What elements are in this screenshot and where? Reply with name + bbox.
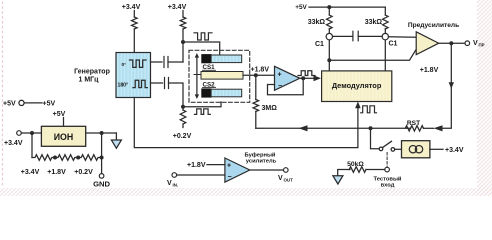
wire +1.8V to buffer + input bbox=[207, 164, 225, 166]
waveform glyph demod clock bbox=[361, 106, 377, 113]
svg-text:OUT: OUT bbox=[284, 178, 294, 183]
arrow down on feedback bbox=[449, 82, 454, 89]
wire cap down to CS2 node bbox=[169, 83, 184, 107]
svg-text:33kΩ: 33kΩ bbox=[308, 19, 326, 26]
svg-text:180°: 180° bbox=[118, 82, 129, 88]
svg-text:0°: 0° bbox=[122, 62, 127, 68]
svg-text:V: V bbox=[278, 175, 283, 182]
resistor bias to +0.2V bbox=[182, 107, 184, 110]
capacitor coupling 0deg bbox=[164, 57, 168, 68]
svg-text:RST: RST bbox=[407, 120, 420, 127]
demodulator block bbox=[322, 71, 392, 102]
wire test input to 50k bbox=[366, 169, 385, 171]
decorative border (bottom band) bbox=[0, 188, 492, 196]
svg-text:C1: C1 bbox=[389, 41, 398, 48]
wire demod top-right pin up to C1 right bbox=[384, 40, 386, 71]
terminal Vout bbox=[284, 168, 289, 173]
resistor divider R a bbox=[32, 155, 55, 161]
svg-text:+3.4V: +3.4V bbox=[4, 140, 23, 147]
resistor 50k bbox=[349, 167, 366, 173]
svg-text:V: V bbox=[167, 180, 172, 187]
wire Vin to buffer - input bbox=[177, 174, 225, 176]
feedback wire preamp to RST line bbox=[443, 43, 451, 128]
wire cap to node x183 bbox=[168, 61, 183, 63]
arrow left before RST bbox=[434, 125, 443, 131]
wire preamp output to Vpr bbox=[439, 42, 465, 44]
op-amp preamp U2 bbox=[416, 32, 439, 55]
middle plate left tick bbox=[194, 74, 201, 76]
wire generator 180deg output to cap bbox=[151, 82, 163, 84]
svg-text:3МΩ: 3МΩ bbox=[262, 105, 278, 112]
svg-text:+3.4V: +3.4V bbox=[21, 169, 40, 176]
svg-text:+3.4V: +3.4V bbox=[445, 147, 464, 154]
terminal GND bbox=[99, 174, 104, 179]
svg-text:ПР: ПР bbox=[479, 43, 485, 48]
svg-text:Буферный: Буферный bbox=[244, 152, 275, 159]
wire +5V terminal bbox=[24, 102, 42, 104]
wire node down to test switch bbox=[371, 128, 379, 149]
wire 3M to feedback line bbox=[255, 112, 257, 129]
resistor RST bbox=[424, 127, 434, 129]
svg-text:+5V: +5V bbox=[295, 4, 307, 11]
svg-text:вход: вход bbox=[381, 183, 395, 189]
node C1 right (open circle) bbox=[382, 33, 388, 39]
wire node down to 3M resistor bbox=[255, 75, 257, 99]
waveform glyph 180deg bbox=[133, 80, 147, 87]
wire lamp box to +3.4V bbox=[430, 148, 443, 150]
svg-text:Предусилитель: Предусилитель bbox=[408, 22, 459, 29]
resistor R pull-up 1 bbox=[132, 17, 138, 29]
wire middle plate to op-amp U1 input bbox=[243, 74, 275, 76]
wire C1 right to preamp bbox=[388, 36, 416, 38]
svg-text:GND: GND bbox=[93, 179, 110, 188]
resistor R pull-up 2 bbox=[180, 17, 186, 29]
svg-text:+1.8V: +1.8V bbox=[251, 67, 270, 74]
svg-text:+5V: +5V bbox=[43, 101, 56, 108]
wire cap to C1 right bbox=[358, 35, 382, 37]
+5V rail wire bbox=[309, 6, 385, 8]
svg-text:усилитель: усилитель bbox=[246, 159, 277, 165]
wire 50k to ground bbox=[338, 170, 350, 176]
capacitor coupling 180deg bbox=[165, 78, 169, 89]
wire demod top-left pin up to C1 left bbox=[328, 40, 330, 71]
svg-text:Демодулятор: Демодулятор bbox=[332, 81, 382, 90]
terminal test input bbox=[385, 167, 390, 172]
wire +5V to ION bbox=[63, 118, 65, 127]
lamp box (reference element) bbox=[402, 141, 430, 158]
common middle plate bbox=[201, 72, 243, 80]
wire U1 output to demodulator bbox=[300, 77, 314, 79]
wire ION right to ground symbol bbox=[86, 132, 117, 134]
sensor dashed box bbox=[189, 50, 250, 102]
wire node down to divider bbox=[31, 133, 33, 158]
svg-text:+1.8V: +1.8V bbox=[420, 67, 439, 74]
wire C1 left to cap bbox=[333, 35, 353, 37]
svg-text:+3.4V: +3.4V bbox=[122, 4, 141, 11]
arrow left mid feedback bbox=[299, 125, 308, 131]
node feedback / test switch bbox=[369, 126, 373, 130]
node +0.2V tap bbox=[76, 156, 80, 160]
svg-text:V: V bbox=[473, 40, 478, 47]
waveform glyph below CS2 wire bbox=[195, 109, 211, 115]
node preamp output bbox=[449, 41, 453, 45]
ION voltage reference block bbox=[41, 126, 85, 146]
svg-text:+: + bbox=[227, 163, 231, 170]
switch arm bbox=[383, 141, 392, 147]
svg-text:33kΩ: 33kΩ bbox=[365, 19, 383, 26]
switch right contact bbox=[391, 148, 395, 152]
CS2 bottom plate (black contact + blue bar) bbox=[202, 89, 211, 97]
waveform glyph at U1 output bbox=[298, 71, 315, 76]
ground triangle (ION) bbox=[111, 140, 121, 148]
decorative border (left dotted line) bbox=[2, 2, 4, 188]
resistor divider R c bbox=[78, 155, 101, 161]
wire node to CS1 top plate bbox=[183, 42, 220, 55]
arrow into demodulator bbox=[314, 75, 322, 81]
terminal Vpr bbox=[465, 41, 470, 46]
svg-text:1 МГц: 1 МГц bbox=[79, 76, 100, 83]
wire from +3.4V to R2 bbox=[182, 11, 184, 18]
wire ION ground down to divider end bbox=[101, 133, 103, 174]
wire R2 down to coupling cap C 0deg bbox=[182, 29, 184, 62]
node +5V / 33k left bbox=[327, 5, 331, 9]
node ION ground bbox=[100, 131, 104, 135]
resistor divider R b bbox=[55, 155, 78, 161]
node at R2 / CS1 drive bbox=[181, 40, 185, 44]
resistor 33k left bbox=[328, 7, 330, 15]
stub to ground triangle bbox=[115, 133, 117, 140]
resistor 3MOhm bbox=[253, 100, 259, 112]
svg-text:+5V: +5V bbox=[3, 101, 16, 108]
wire from +3.4V to R1 bbox=[133, 11, 135, 18]
svg-text:ИОН: ИОН bbox=[54, 132, 74, 142]
svg-text:+1.8V: +1.8V bbox=[47, 169, 66, 176]
clock wire generator bottom to demodulator bbox=[134, 98, 358, 148]
op-amp U1 (input follower) bbox=[275, 66, 300, 90]
svg-text:Тестовый: Тестовый bbox=[373, 176, 401, 183]
decorative border (right band) bbox=[477, 0, 492, 196]
terminal Vin bbox=[172, 173, 177, 178]
waveform glyph 0deg bbox=[130, 60, 147, 67]
op-amp buffer U3 bbox=[225, 158, 250, 182]
generator block (Генератор 1 МГц) bbox=[116, 53, 151, 98]
wire node to CS2 bottom plate bbox=[183, 102, 221, 107]
wire switch to lamp box bbox=[395, 148, 402, 150]
node +1.8V tap bbox=[53, 156, 57, 160]
svg-text:+0.2V: +0.2V bbox=[173, 133, 192, 140]
svg-text:Генератор: Генератор bbox=[74, 68, 110, 75]
displacement double arrow bbox=[195, 53, 199, 99]
svg-text:+3.4V: +3.4V bbox=[168, 4, 187, 11]
switch left contact bbox=[379, 147, 383, 151]
node divider top bbox=[30, 131, 34, 135]
ground triangle (test) bbox=[333, 176, 343, 184]
node divider bottom bbox=[100, 156, 104, 160]
dashed link test input to switch bbox=[386, 153, 388, 167]
resistor 33k right bbox=[384, 7, 386, 15]
wire R1 to generator top bbox=[133, 29, 135, 53]
svg-text:−: − bbox=[228, 174, 232, 181]
wire demod ref to preamp input bbox=[329, 50, 416, 60]
capacitor C between C1 nodes bbox=[353, 31, 358, 41]
wire generator 0deg output to cap bbox=[151, 61, 163, 63]
svg-text:IN.: IN. bbox=[173, 183, 179, 188]
svg-text:−: − bbox=[278, 83, 282, 90]
arrow up into demodulator clock bbox=[355, 102, 361, 109]
svg-text:+1.8V: +1.8V bbox=[187, 162, 206, 169]
node demod ref bbox=[327, 58, 331, 62]
svg-text:C1: C1 bbox=[315, 41, 324, 48]
node sensor output bbox=[254, 73, 258, 77]
CS1 top plate (black contact + blue bar) bbox=[202, 55, 211, 63]
wire buffer output to Vout bbox=[250, 169, 284, 171]
svg-text:+0.2V: +0.2V bbox=[74, 169, 93, 176]
wire terminal to ION bbox=[21, 132, 41, 134]
svg-text:50kΩ: 50kΩ bbox=[347, 161, 364, 168]
svg-text:+: + bbox=[278, 72, 282, 79]
terminal +3.4V output bbox=[17, 131, 22, 136]
feedback wire RST to 3M bbox=[256, 127, 411, 129]
node U1 output bbox=[301, 76, 305, 80]
node C1 left (open circle) bbox=[326, 33, 332, 39]
waveform glyph above CS1 drive wire bbox=[194, 33, 212, 40]
feedback wire U1 bbox=[268, 78, 304, 95]
node CS2 bias bbox=[181, 105, 185, 109]
